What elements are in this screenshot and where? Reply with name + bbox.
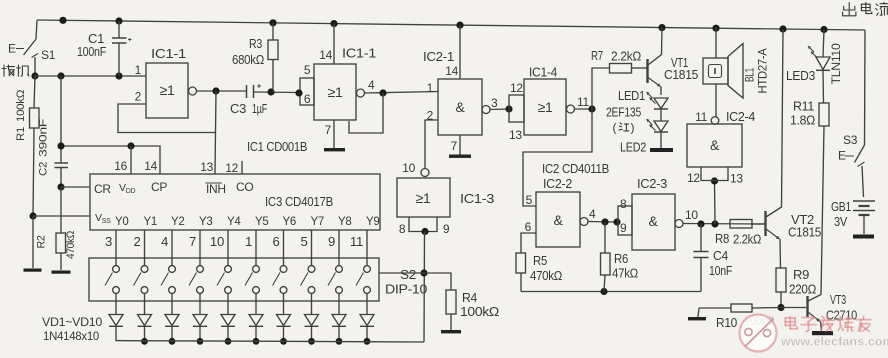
svg-text:R5: R5 (533, 254, 547, 268)
svg-text:≥1: ≥1 (538, 99, 553, 115)
svg-text:LED3: LED3 (786, 69, 815, 83)
svg-text:12: 12 (510, 81, 523, 95)
svg-text:7: 7 (189, 234, 196, 249)
svg-text:100kΩ: 100kΩ (460, 304, 500, 319)
svg-text:10: 10 (685, 208, 698, 222)
svg-text:2EF135: 2EF135 (606, 106, 641, 120)
svg-text:10nF: 10nF (709, 264, 733, 278)
svg-text:11: 11 (577, 95, 589, 109)
svg-text:S1: S1 (41, 48, 56, 62)
svg-text:Y3: Y3 (199, 214, 213, 228)
svg-text:GB1: GB1 (831, 200, 851, 214)
svg-text:IC1-4: IC1-4 (529, 66, 557, 80)
svg-text:E: E (838, 149, 846, 163)
svg-text:R6: R6 (614, 252, 628, 266)
svg-text:&: & (710, 137, 720, 153)
svg-text:≥1: ≥1 (328, 84, 343, 100)
svg-text:&: & (553, 212, 563, 228)
svg-text:IC2-2: IC2-2 (543, 177, 572, 191)
svg-text:8: 8 (399, 222, 406, 236)
svg-text:12: 12 (687, 171, 700, 185)
svg-text:2: 2 (135, 90, 142, 104)
svg-text:LED2: LED2 (620, 141, 646, 155)
svg-text:7: 7 (451, 139, 458, 153)
svg-text:R9: R9 (793, 268, 809, 282)
svg-text:7: 7 (325, 123, 332, 137)
svg-text:IC2-1: IC2-1 (423, 50, 454, 64)
svg-text:Y0: Y0 (115, 214, 129, 228)
svg-text:R11: R11 (793, 100, 814, 114)
svg-text:LED1: LED1 (618, 89, 645, 103)
svg-text:C2: C2 (38, 162, 50, 176)
svg-text:BL1: BL1 (745, 68, 757, 82)
svg-text:VD1~VD10: VD1~VD10 (42, 315, 102, 329)
svg-text:3: 3 (491, 96, 498, 110)
svg-text:14: 14 (445, 64, 458, 78)
svg-text:≥1: ≥1 (160, 82, 175, 98)
svg-text:1: 1 (427, 81, 434, 95)
svg-text:470kΩ: 470kΩ (530, 269, 562, 283)
svg-text:14: 14 (144, 159, 157, 173)
svg-text:Y2: Y2 (171, 214, 185, 228)
svg-text:1.8Ω: 1.8Ω (790, 114, 815, 128)
svg-text:HTD27-A: HTD27-A (758, 48, 770, 94)
svg-text:S3: S3 (843, 133, 858, 147)
svg-text:100kΩ: 100kΩ (15, 90, 27, 122)
svg-text:100nF: 100nF (77, 45, 107, 59)
svg-text:): ) (631, 121, 635, 135)
svg-text:IC1-1: IC1-1 (151, 47, 186, 61)
svg-text:www.elecfans.com: www.elecfans.com (780, 335, 888, 349)
svg-text:5: 5 (300, 234, 307, 249)
svg-text:1: 1 (135, 63, 142, 77)
svg-text:9: 9 (620, 221, 627, 235)
svg-text:IC2 CD4011B: IC2 CD4011B (542, 161, 609, 176)
svg-text:1µF: 1µF (252, 102, 267, 116)
svg-text:4: 4 (161, 234, 168, 249)
svg-text:8: 8 (620, 197, 627, 211)
svg-text:VT3: VT3 (830, 292, 846, 307)
svg-text:&: & (455, 99, 465, 115)
svg-text:2: 2 (133, 234, 140, 249)
svg-text:Y4: Y4 (227, 214, 241, 228)
svg-text:6: 6 (304, 92, 311, 106)
svg-text:Y5: Y5 (255, 214, 269, 228)
svg-text:&: & (648, 213, 658, 229)
svg-text:IC3 CD4017B: IC3 CD4017B (265, 194, 333, 209)
svg-text:(: ( (613, 121, 617, 135)
svg-text:TLN110: TLN110 (831, 44, 843, 85)
svg-text:R1: R1 (15, 127, 27, 141)
svg-text:13: 13 (509, 128, 522, 142)
svg-text:3: 3 (105, 234, 112, 249)
svg-text:E: E (8, 42, 16, 56)
svg-text:11: 11 (350, 234, 363, 249)
svg-text:220Ω: 220Ω (789, 283, 816, 297)
svg-text:R2: R2 (36, 235, 48, 248)
svg-text:INH: INH (206, 182, 226, 196)
svg-text:C1815: C1815 (664, 68, 698, 82)
svg-text:Y9: Y9 (366, 214, 380, 228)
svg-text:IC2-4: IC2-4 (726, 110, 755, 124)
svg-text:2: 2 (427, 109, 434, 123)
svg-text:11: 11 (695, 110, 707, 124)
svg-text:R10: R10 (716, 316, 737, 330)
svg-text:IC1-1: IC1-1 (342, 47, 376, 61)
svg-text:R8: R8 (715, 232, 729, 246)
svg-text:6: 6 (525, 220, 532, 234)
svg-text:2.2kΩ: 2.2kΩ (733, 233, 761, 247)
svg-text:9: 9 (328, 234, 335, 249)
svg-text:R3: R3 (249, 37, 262, 51)
svg-text:13: 13 (730, 172, 743, 186)
svg-text:C4: C4 (713, 249, 728, 263)
svg-text:2.2kΩ: 2.2kΩ (611, 50, 641, 64)
svg-text:R4: R4 (462, 291, 477, 305)
svg-text:IC1-3: IC1-3 (460, 192, 494, 206)
svg-text:12: 12 (225, 161, 238, 175)
svg-text:Y8: Y8 (338, 214, 352, 228)
svg-text:R7: R7 (591, 49, 603, 63)
svg-text:IC2-3: IC2-3 (637, 177, 667, 191)
svg-text:DIP-10: DIP-10 (385, 283, 427, 297)
svg-text:13: 13 (200, 160, 213, 174)
svg-text:14: 14 (319, 48, 332, 62)
svg-text:C3: C3 (230, 102, 246, 116)
svg-text:Y1: Y1 (144, 214, 158, 228)
svg-text:S2: S2 (400, 268, 416, 282)
svg-text:≥1: ≥1 (416, 190, 431, 206)
svg-text:10: 10 (210, 234, 224, 249)
svg-text:680kΩ: 680kΩ (232, 53, 264, 67)
svg-text:47kΩ: 47kΩ (612, 267, 638, 281)
svg-text:5: 5 (304, 63, 311, 77)
svg-text:5: 5 (526, 193, 533, 207)
svg-text:Y6: Y6 (283, 214, 297, 228)
svg-text:3V: 3V (834, 215, 848, 229)
svg-text:C1: C1 (88, 32, 104, 46)
svg-text:IC1 CD001B: IC1 CD001B (247, 139, 307, 154)
svg-text:1: 1 (245, 234, 252, 249)
svg-text:CR: CR (94, 182, 111, 196)
svg-text:4: 4 (368, 78, 375, 92)
svg-text:6: 6 (272, 234, 279, 249)
svg-text:16: 16 (114, 159, 127, 173)
svg-text:10: 10 (402, 161, 415, 175)
svg-text:Y7: Y7 (311, 214, 325, 228)
svg-text:1N4148x10: 1N4148x10 (43, 329, 99, 343)
svg-text:9: 9 (443, 222, 450, 236)
svg-text:C1815: C1815 (788, 225, 821, 240)
svg-text:390nF: 390nF (38, 118, 50, 157)
svg-text:4: 4 (589, 207, 596, 221)
svg-text:470kΩ: 470kΩ (65, 231, 77, 259)
svg-text:CO: CO (236, 180, 253, 194)
svg-text:CP: CP (151, 180, 167, 194)
